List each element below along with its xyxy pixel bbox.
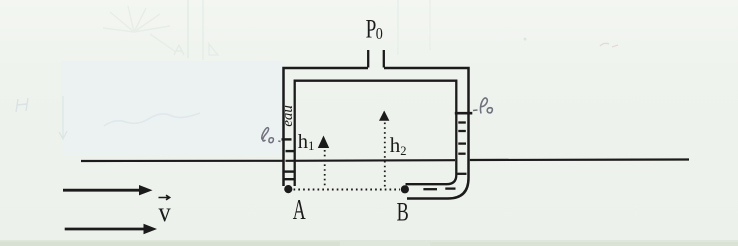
velocity arrow 2 head <box>144 224 158 234</box>
svg-text:B: B <box>397 197 409 226</box>
handwritten p0 label right <box>473 98 492 114</box>
label A <box>293 195 307 226</box>
h2 dotted vertical <box>384 123 386 189</box>
tube assembly inner wall <box>295 81 457 186</box>
ghost specks right <box>524 38 527 41</box>
ghost handwriting H <box>16 98 28 112</box>
point A dot <box>284 185 292 193</box>
tube A tick 2 <box>286 150 295 152</box>
ghost down arrow <box>59 96 67 139</box>
tube B dash 5 <box>457 173 466 175</box>
horizontal tube dash 1 <box>423 188 437 190</box>
h1 dotted vertical <box>324 150 326 188</box>
ghost letter A <box>174 45 184 55</box>
tinted scan region left <box>61 61 285 155</box>
label P0 <box>366 15 383 44</box>
svg-text:A: A <box>293 195 307 226</box>
top opening right wall <box>383 50 385 68</box>
ghost vertical line <box>187 0 189 58</box>
ghost squiggle handwriting <box>104 113 200 126</box>
h2 arrow head <box>379 111 389 121</box>
ghost triangle mark <box>209 44 218 55</box>
tube assembly outer wall <box>284 68 469 199</box>
tube B dash 1 <box>458 121 466 123</box>
handwritten l0 label left <box>262 128 281 143</box>
tube A tick 4 <box>284 178 295 180</box>
ghost vertical line 2 <box>202 0 204 60</box>
tube B dash 4 <box>458 153 465 155</box>
svg-text:0: 0 <box>376 25 383 43</box>
label v <box>159 197 171 227</box>
ghost vertical line 4 <box>429 0 431 50</box>
ghost star rays top-left <box>103 6 176 52</box>
ghost vertical line 3 <box>397 0 399 55</box>
velocity arrow 1 head <box>139 185 153 195</box>
vector arrow over v <box>159 195 170 200</box>
h1 arrow head <box>318 136 329 149</box>
svg-text:P: P <box>366 15 377 43</box>
top opening left wall <box>367 50 369 68</box>
water surface line middle segment <box>286 159 456 162</box>
tube B level mark <box>455 112 473 115</box>
dotted baseline A to B <box>294 189 401 191</box>
velocity arrow 1 shaft <box>63 189 140 192</box>
tube A tick 3 <box>284 170 296 172</box>
water surface line left segment <box>81 160 283 162</box>
svg-text:eau: eau <box>280 105 296 127</box>
label B <box>397 197 409 226</box>
horizontal tube dash 2 <box>445 187 455 189</box>
bottom scan band <box>0 240 738 246</box>
tube B dash 2 <box>458 130 466 132</box>
point B dot <box>401 185 409 193</box>
tube B dash 3 <box>458 142 466 144</box>
velocity arrow 2 shaft <box>65 228 145 231</box>
water surface line right segment <box>470 158 689 161</box>
svg-text:v: v <box>159 197 171 227</box>
tube A level tick 1 <box>282 138 292 140</box>
